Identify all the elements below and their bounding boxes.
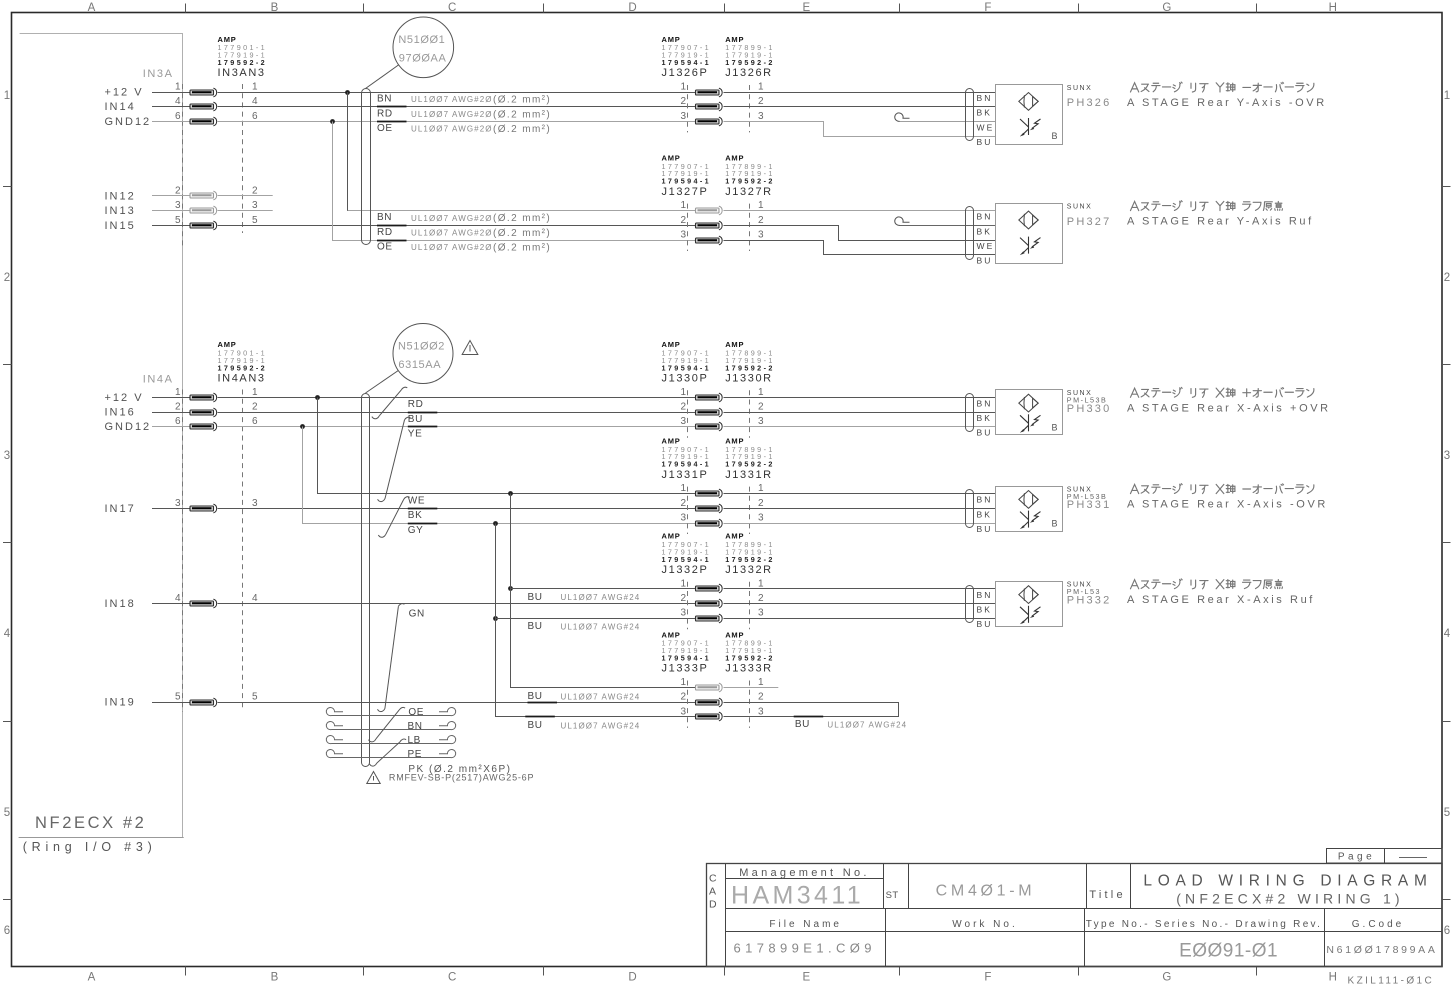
wire IN18 to J1332 pin2 <box>218 603 696 605</box>
svg-text:(Ø.2 mm²): (Ø.2 mm²) <box>493 109 551 120</box>
svg-text:1: 1 <box>175 387 181 398</box>
svg-text:179592-2: 179592-2 <box>725 460 775 469</box>
signal +12 V pin 1 <box>105 387 259 404</box>
svg-text:OE: OE <box>408 707 424 718</box>
wire IN16 to J1330 <box>218 412 696 414</box>
wire J1327 pin3 to PH327 BU (jog) <box>724 241 996 255</box>
svg-text:IN18: IN18 <box>105 598 136 610</box>
svg-text:UL1ØØ7 AWG#24: UL1ØØ7 AWG#24 <box>561 593 641 602</box>
svg-text:2: 2 <box>4 272 10 284</box>
svg-text:3: 3 <box>680 416 686 427</box>
svg-text:(Ring I/O #3): (Ring I/O #3) <box>23 840 157 854</box>
Ring I/O #3 label <box>23 840 157 854</box>
svg-text:(Ø.2 mm²): (Ø.2 mm²) <box>493 228 551 239</box>
svg-text:GND12: GND12 <box>105 116 152 128</box>
wire branch to J1332 pin3 and J1333 pin3 <box>493 521 695 716</box>
svg-text:2: 2 <box>252 185 258 196</box>
svg-text:Title: Title <box>1089 889 1125 901</box>
wire label OE <box>408 707 424 718</box>
svg-text:1: 1 <box>758 677 764 688</box>
svg-text:J1332R: J1332R <box>725 564 773 576</box>
svg-text:179594-1: 179594-1 <box>662 654 712 663</box>
svg-text:B: B <box>1052 519 1058 529</box>
svg-text:2: 2 <box>758 498 764 509</box>
svg-text:UL1ØØ7 AWG#24: UL1ØØ7 AWG#24 <box>561 623 641 632</box>
svg-text:2: 2 <box>680 402 686 413</box>
svg-text:BU: BU <box>977 524 993 534</box>
svg-text:D: D <box>709 899 717 911</box>
NF2ECX #2 label <box>35 814 146 832</box>
unconnected BK stub with curl (PH327) <box>895 217 995 226</box>
svg-text:UL1ØØ7 AWG#24: UL1ØØ7 AWG#24 <box>561 692 641 701</box>
svg-text:G: G <box>1162 972 1171 984</box>
svg-text:179592-2: 179592-2 <box>725 555 775 564</box>
svg-text:2: 2 <box>758 215 764 226</box>
sheet code KZIL111-01C <box>1348 976 1435 986</box>
wire J1331 pin1 to PH331 <box>724 493 996 495</box>
signal IN13 pin 3 <box>105 200 259 217</box>
svg-text:2: 2 <box>1444 272 1450 284</box>
wire label YE <box>408 429 423 440</box>
svg-text:D: D <box>628 972 636 984</box>
svg-text:Page: Page <box>1338 852 1375 863</box>
svg-text:IN17: IN17 <box>105 503 136 515</box>
svg-text:SUNX: SUNX <box>1067 203 1092 210</box>
wire label BU UL1007 AWG#24 (J1332 pin1) <box>528 592 641 603</box>
svg-text:6: 6 <box>1444 925 1450 937</box>
wire IN12 stub <box>218 195 273 197</box>
svg-text:4: 4 <box>175 593 181 604</box>
unused conductor PK (coiled) <box>326 749 455 757</box>
svg-text:D: D <box>628 2 636 14</box>
svg-text:B: B <box>271 2 279 14</box>
svg-text:OE: OE <box>377 123 393 134</box>
svg-text:E: E <box>802 972 810 984</box>
svg-text:1: 1 <box>680 578 686 589</box>
signal IN18 pin 4 <box>105 593 259 610</box>
wire label RD UL1007 AWG#20 (J1326 row 2) <box>377 108 551 120</box>
svg-text:5: 5 <box>1444 807 1450 819</box>
svg-text:G: G <box>1162 2 1171 14</box>
svg-text:2: 2 <box>680 215 686 226</box>
svg-text:3: 3 <box>175 200 181 211</box>
signal IN15 pin 5 <box>105 215 259 232</box>
wire J1327 pin2 to PH327 WE (jog) <box>724 226 996 241</box>
svg-text:2: 2 <box>758 96 764 107</box>
svg-text:+12 V: +12 V <box>105 392 144 404</box>
svg-text:1: 1 <box>758 200 764 211</box>
svg-text:IN3A: IN3A <box>143 68 174 80</box>
wire label BU UL1007 AWG#24 (J1333 pin2) <box>528 691 641 702</box>
wire +12V to J1326 <box>218 92 696 94</box>
wire group mark YE/WE <box>378 417 411 501</box>
svg-text:A STAGE Rear X-Axis Ruf: A STAGE Rear X-Axis Ruf <box>1127 594 1315 606</box>
wire label BN UL1007 AWG#20 (J1327 row 1) <box>377 212 551 224</box>
svg-text:5: 5 <box>175 692 181 703</box>
wire label BU UL1007 AWG#24 (J1332 pin3) <box>528 621 641 632</box>
svg-text:PH331: PH331 <box>1067 499 1112 511</box>
svg-text:6: 6 <box>4 925 10 937</box>
wire branch to J1332 pin1 and J1333 pin1 <box>508 491 695 687</box>
svg-text:1: 1 <box>252 387 258 398</box>
svg-text:3: 3 <box>680 706 686 717</box>
wire J1327 pin1 to PH327 BN <box>724 210 996 212</box>
svg-text:GND12: GND12 <box>105 421 152 433</box>
svg-text:BK: BK <box>977 509 993 519</box>
signal IN19 pin 5 <box>105 692 259 709</box>
wire GND12 branch to J1331 pin3 <box>300 424 695 523</box>
unconnected WE stub with curl (PH326) <box>895 113 995 122</box>
svg-text:PE: PE <box>408 749 423 760</box>
svg-text:J1330P: J1330P <box>662 373 709 385</box>
svg-text:2: 2 <box>758 593 764 604</box>
svg-text:A: A <box>88 2 96 14</box>
svg-text:BK: BK <box>977 605 993 615</box>
svg-text:179592-2: 179592-2 <box>218 58 268 67</box>
svg-text:1: 1 <box>4 90 10 102</box>
wire J1330 pin3 to PH330 <box>724 426 996 428</box>
svg-text:1: 1 <box>680 483 686 494</box>
svg-text:BN: BN <box>977 93 993 103</box>
svg-text:J1326P: J1326P <box>662 67 709 79</box>
svg-text:6: 6 <box>175 111 181 122</box>
svg-text:BK: BK <box>977 108 993 118</box>
wire IN15 to J1327 <box>218 225 696 227</box>
svg-text:J1331P: J1331P <box>662 469 709 481</box>
wire label BU <box>408 414 423 425</box>
svg-text:UL1ØØ7 AWG#2Ø: UL1ØØ7 AWG#2Ø <box>411 95 493 104</box>
svg-text:C: C <box>448 2 456 14</box>
svg-text:PH330: PH330 <box>1067 403 1112 415</box>
svg-text:RD: RD <box>377 108 393 119</box>
svg-text:2: 2 <box>680 96 686 107</box>
svg-text:3: 3 <box>1444 450 1450 462</box>
svg-text:OE: OE <box>377 242 393 253</box>
svg-text:1: 1 <box>175 82 181 93</box>
svg-text:BU: BU <box>528 592 543 603</box>
svg-text:6315AA: 6315AA <box>398 359 441 371</box>
svg-text:ST: ST <box>886 890 899 901</box>
svg-text:4: 4 <box>175 96 181 107</box>
svg-text:J1331R: J1331R <box>725 469 773 481</box>
svg-text:3: 3 <box>680 111 686 122</box>
svg-text:B: B <box>1052 131 1058 141</box>
svg-text:(Ø.2 mm²): (Ø.2 mm²) <box>493 213 551 224</box>
svg-text:G.Code: G.Code <box>1352 919 1404 930</box>
svg-text:Work No.: Work No. <box>952 919 1018 930</box>
svg-text:J1333P: J1333P <box>662 663 709 675</box>
svg-text:UL1ØØ7 AWG#2Ø: UL1ØØ7 AWG#2Ø <box>411 110 493 119</box>
svg-text:LOAD WIRING DIAGRAM: LOAD WIRING DIAGRAM <box>1143 873 1432 890</box>
wire group mark GN/OE <box>377 604 404 712</box>
svg-text:BN: BN <box>977 398 993 408</box>
cable N51001 sheath <box>362 89 371 245</box>
svg-text:A STAGE Rear Y-Axis Ruf: A STAGE Rear Y-Axis Ruf <box>1127 216 1314 228</box>
wire IN17 to J1331 pin2 <box>218 508 696 510</box>
signal GND12 pin 6 <box>105 416 259 433</box>
svg-text:1: 1 <box>680 200 686 211</box>
svg-text:3: 3 <box>4 450 10 462</box>
connector J1326P / J1326R <box>662 35 775 133</box>
svg-text:97ØØAA: 97ØØAA <box>399 53 447 65</box>
svg-text:J1330R: J1330R <box>725 373 773 385</box>
svg-text:KZIL111-Ø1C: KZIL111-Ø1C <box>1348 976 1435 986</box>
svg-text:IN19: IN19 <box>105 697 136 709</box>
wire +12V to J1330 <box>218 397 696 399</box>
wire J1332 pin3 to PH332 <box>724 618 996 620</box>
svg-text:BN: BN <box>377 94 392 105</box>
svg-text:2: 2 <box>758 402 764 413</box>
page box <box>1327 849 1443 864</box>
cable type note RMFEV-SB-P <box>367 772 535 784</box>
wire J1330 pin1 to PH330 <box>724 397 996 399</box>
wire group mark RD/BU <box>372 387 408 419</box>
svg-text:UL1ØØ7 AWG#2Ø: UL1ØØ7 AWG#2Ø <box>411 214 493 223</box>
signal GND12 pin 6 <box>105 111 259 128</box>
signal IN14 pin 4 <box>105 96 259 113</box>
wire J1331 pin3 to PH331 <box>724 523 996 525</box>
svg-text:BK: BK <box>977 413 993 423</box>
svg-text:B: B <box>1052 422 1058 432</box>
wire +12V branch to J1331 pin1 <box>315 395 695 493</box>
svg-text:BU: BU <box>977 619 993 629</box>
svg-text:Type No.- Series No.- Drawing: Type No.- Series No.- Drawing Rev. <box>1086 919 1322 930</box>
svg-text:3: 3 <box>758 608 764 619</box>
signal IN17 pin 3 <box>105 498 259 515</box>
wire group mark OE/BN <box>368 707 405 741</box>
svg-text:NF2ECX #2: NF2ECX #2 <box>35 814 146 832</box>
svg-text:N51ØØ1: N51ØØ1 <box>398 34 445 46</box>
wire J1326 pin1 to PH326 BN <box>724 92 996 94</box>
signal +12 V pin 1 <box>105 82 259 99</box>
photo sensor PH327 (SUNX) <box>966 201 1314 266</box>
svg-text:2: 2 <box>758 692 764 703</box>
svg-text:BU: BU <box>528 720 543 731</box>
svg-text:B: B <box>271 972 279 984</box>
svg-text:C: C <box>448 972 456 984</box>
svg-text:BK: BK <box>408 510 423 521</box>
connector J1331P / J1331R <box>662 436 775 534</box>
svg-text:IN15: IN15 <box>105 220 136 232</box>
svg-text:File Name: File Name <box>769 919 842 930</box>
wire label RD UL1007 AWG#20 (J1327 row 2) <box>377 227 551 239</box>
svg-text:H: H <box>1329 972 1337 984</box>
svg-text:179594-1: 179594-1 <box>662 460 712 469</box>
svg-text:3: 3 <box>758 416 764 427</box>
wire label OE UL1007 AWG#20 (J1326 row 3) <box>377 123 551 135</box>
svg-text:J1327R: J1327R <box>725 186 773 198</box>
svg-text:LB: LB <box>408 735 421 746</box>
svg-text:WE: WE <box>408 495 425 506</box>
svg-text:E: E <box>802 2 810 14</box>
cable size label PK (0.2mm2 X6P) <box>408 764 511 775</box>
svg-text:1: 1 <box>758 483 764 494</box>
svg-text:(Ø.2 mm²): (Ø.2 mm²) <box>493 124 551 135</box>
svg-text:PH327: PH327 <box>1067 216 1112 228</box>
svg-text:BN: BN <box>377 212 392 223</box>
wire J1332 pin2 to PH332 <box>724 603 996 605</box>
wire J1333 pin1 stub <box>724 687 779 689</box>
wire label WE <box>408 495 425 506</box>
svg-text:617899E1.CØ9: 617899E1.CØ9 <box>734 941 876 956</box>
unused conductor LB (coiled) <box>326 721 455 745</box>
svg-text:WE: WE <box>977 241 995 251</box>
wire group mark BK/GY <box>378 497 409 538</box>
svg-text:179594-1: 179594-1 <box>662 58 712 67</box>
svg-text:1: 1 <box>680 387 686 398</box>
svg-text:WE: WE <box>977 122 995 132</box>
svg-text:BN: BN <box>977 590 993 600</box>
svg-text:UL1ØØ7 AWG#2Ø: UL1ØØ7 AWG#2Ø <box>411 125 493 134</box>
svg-text:(Ø.2 mm²): (Ø.2 mm²) <box>493 243 551 254</box>
svg-text:3: 3 <box>758 513 764 524</box>
svg-text:BU: BU <box>795 719 810 730</box>
svg-text:CM4Ø1-M: CM4Ø1-M <box>936 883 1036 900</box>
svg-text:6: 6 <box>252 416 258 427</box>
svg-text:3: 3 <box>758 111 764 122</box>
wire label BN UL1007 AWG#20 (J1326 row 1) <box>377 94 551 106</box>
svg-text:3: 3 <box>252 200 258 211</box>
svg-text:4: 4 <box>4 628 11 640</box>
wire GND12 to J1330 <box>218 426 696 428</box>
cable N51002 sheath <box>362 394 370 767</box>
svg-text:1: 1 <box>758 82 764 93</box>
balloon N51002 6315AA <box>366 324 454 394</box>
wire label BU UL1007 AWG#24 (J1333 loop) <box>795 719 907 730</box>
svg-text:BN: BN <box>977 495 993 505</box>
svg-text:A: A <box>88 972 96 984</box>
svg-text:179594-1: 179594-1 <box>662 177 712 186</box>
svg-text:179594-1: 179594-1 <box>662 363 712 372</box>
svg-text:F: F <box>984 972 991 984</box>
svg-text:F: F <box>984 2 991 14</box>
wire label RD <box>408 399 424 410</box>
wire group mark LB/PE <box>369 739 406 766</box>
title block <box>707 863 1443 966</box>
svg-text:2: 2 <box>175 402 181 413</box>
svg-text:BK: BK <box>977 226 993 236</box>
connector J1330P / J1330R <box>662 340 775 438</box>
wire +12V branch to J1327 pin1 <box>345 90 695 211</box>
wire label BU UL1007 AWG#24 (J1333 pin3) <box>528 720 641 731</box>
svg-text:J1326R: J1326R <box>725 67 773 79</box>
connector J1327P / J1327R <box>662 153 775 251</box>
photo sensor PH330 (SUNX PM-L53B) <box>966 387 1331 437</box>
revision triangle near N51002 <box>462 341 478 355</box>
svg-text:UL1ØØ7 AWG#24: UL1ØØ7 AWG#24 <box>561 721 641 730</box>
svg-text:5: 5 <box>4 807 10 819</box>
svg-text:3: 3 <box>680 608 686 619</box>
svg-text:1: 1 <box>680 82 686 93</box>
wire label BK <box>408 510 423 521</box>
svg-text:IN13: IN13 <box>105 205 136 217</box>
wire J1326 pin3 to PH326 BU (jog) <box>724 122 996 137</box>
svg-text:BN: BN <box>977 212 993 222</box>
svg-text:N51ØØ2: N51ØØ2 <box>398 341 445 353</box>
connector J1332P / J1332R <box>662 532 775 630</box>
wire J1332 pin1 to PH332 <box>724 588 996 590</box>
svg-text:BU: BU <box>977 137 993 147</box>
svg-text:3: 3 <box>758 706 764 717</box>
wire label OE UL1007 AWG#20 (J1327 row 3) <box>377 242 551 254</box>
signal IN12 pin 2 <box>105 185 259 202</box>
connector J1333P / J1333R <box>662 630 775 728</box>
svg-text:RD: RD <box>377 227 393 238</box>
balloon N51001 9700AA <box>366 17 454 89</box>
svg-text:4: 4 <box>252 96 258 107</box>
svg-text:RMFEV-SB-P(2517)AWG25-6P: RMFEV-SB-P(2517)AWG25-6P <box>389 773 534 783</box>
svg-text:A STAGE Rear X-Axis -OVR: A STAGE Rear X-Axis -OVR <box>1127 499 1328 511</box>
svg-text:A STAGE Rear X-Axis +OVR: A STAGE Rear X-Axis +OVR <box>1127 402 1331 414</box>
unused conductor BN (coiled) <box>326 707 455 731</box>
svg-text:PH332: PH332 <box>1067 594 1112 606</box>
svg-text:3: 3 <box>758 230 764 241</box>
svg-text:5: 5 <box>252 692 258 703</box>
svg-text:179592-2: 179592-2 <box>725 363 775 372</box>
svg-text:J1332P: J1332P <box>662 564 709 576</box>
svg-text:BN: BN <box>408 721 423 732</box>
svg-text:179592-2: 179592-2 <box>218 363 268 372</box>
svg-text:C: C <box>709 873 717 885</box>
svg-text:SUNX: SUNX <box>1067 85 1092 92</box>
svg-text:YE: YE <box>408 429 423 440</box>
svg-text:+12 V: +12 V <box>105 87 144 99</box>
svg-text:IN3AN3: IN3AN3 <box>218 67 266 79</box>
svg-text:179594-1: 179594-1 <box>662 555 712 564</box>
svg-text:2: 2 <box>680 593 686 604</box>
signal IN16 pin 2 <box>105 402 259 419</box>
svg-text:BU: BU <box>977 428 993 438</box>
svg-text:3: 3 <box>252 498 258 509</box>
title block texts <box>709 867 1438 962</box>
label underline accents <box>377 107 823 717</box>
svg-text:4: 4 <box>252 593 258 604</box>
svg-text:BU: BU <box>408 414 423 425</box>
wire GND12 to J1326 <box>218 121 696 123</box>
svg-text:1: 1 <box>758 387 764 398</box>
wire IN19 to J1333 pin2 <box>218 702 696 704</box>
wire IN13 stub <box>218 210 273 212</box>
svg-text:2: 2 <box>680 692 686 703</box>
svg-text:3: 3 <box>680 230 686 241</box>
svg-text:IN4AN3: IN4AN3 <box>218 373 266 385</box>
svg-text:J1333R: J1333R <box>725 663 773 675</box>
svg-text:IN16: IN16 <box>105 407 136 419</box>
svg-text:(NF2ECX#2 WIRING 1): (NF2ECX#2 WIRING 1) <box>1176 891 1404 907</box>
svg-text:3: 3 <box>175 498 181 509</box>
svg-text:1: 1 <box>758 578 764 589</box>
svg-text:J1327P: J1327P <box>662 186 709 198</box>
svg-text:6: 6 <box>252 111 258 122</box>
svg-text:BU: BU <box>528 691 543 702</box>
svg-text:PH326: PH326 <box>1067 97 1112 109</box>
svg-text:A: A <box>709 886 716 898</box>
unused conductor PE (coiled) <box>326 735 455 759</box>
svg-text:GN: GN <box>409 608 425 619</box>
svg-text:GY: GY <box>408 525 424 536</box>
svg-text:Management No.: Management No. <box>739 867 870 879</box>
svg-text:H: H <box>1329 2 1337 14</box>
svg-text:IN14: IN14 <box>105 101 136 113</box>
svg-text:2: 2 <box>175 185 181 196</box>
svg-text:HAM3411: HAM3411 <box>731 882 864 910</box>
svg-text:2: 2 <box>252 402 258 413</box>
svg-text:EØØ91-Ø1: EØØ91-Ø1 <box>1179 941 1278 962</box>
svg-text:RD: RD <box>408 399 424 410</box>
svg-text:UL1ØØ7 AWG#2Ø: UL1ØØ7 AWG#2Ø <box>411 243 493 252</box>
svg-text:IN4A: IN4A <box>143 374 174 386</box>
svg-text:(Ø.2 mm²): (Ø.2 mm²) <box>493 95 551 106</box>
